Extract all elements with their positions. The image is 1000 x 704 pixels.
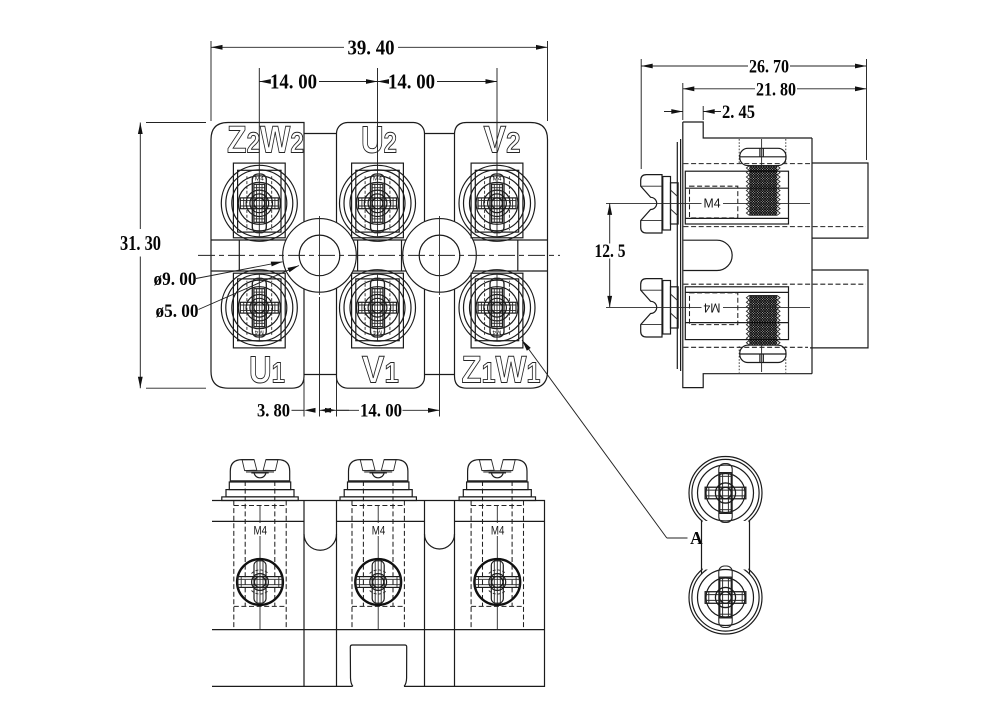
svg-text:26. 70: 26. 70 xyxy=(749,57,789,78)
mounting hole boss 1 xyxy=(283,216,357,295)
screw terminal U2 xyxy=(340,163,416,241)
top view body column 3 xyxy=(455,123,548,389)
upper terminal cage xyxy=(685,171,788,224)
svg-text:M4: M4 xyxy=(704,300,721,315)
mounting hole boss 2 xyxy=(403,216,477,295)
svg-text:ø5. 00: ø5. 00 xyxy=(156,301,199,322)
horizontal centerline xyxy=(198,254,560,256)
upper terminal screw assembly (left) xyxy=(641,175,678,233)
screw terminal V2 xyxy=(459,163,535,241)
svg-text:39. 40: 39. 40 xyxy=(348,36,395,60)
detail A leader xyxy=(520,339,703,548)
upper screw axis xyxy=(606,202,702,204)
lower threaded stud with hatch xyxy=(746,296,780,346)
front slot right xyxy=(425,501,455,687)
svg-text:21. 80: 21. 80 xyxy=(756,79,796,100)
svg-text:3. 80: 3. 80 xyxy=(257,401,290,422)
U slot between terminals xyxy=(684,240,733,270)
svg-text:14. 00: 14. 00 xyxy=(270,70,317,94)
lower clamp screw head (bottom) xyxy=(739,344,786,372)
dimension 2.45 xyxy=(664,102,755,123)
side view front plate lines xyxy=(676,142,678,369)
front screw column 1 xyxy=(222,460,298,630)
detail A rings xyxy=(689,457,762,635)
svg-text:14. 00: 14. 00 xyxy=(388,70,435,94)
svg-text:ø9. 00: ø9. 00 xyxy=(154,269,197,290)
top web lines across gaps xyxy=(304,133,337,135)
middle channel lines xyxy=(211,239,548,241)
dimension 14.00 top-right xyxy=(378,68,498,170)
dimension 14.00 bottom xyxy=(320,297,440,422)
lower terminal screw assembly (left) xyxy=(641,279,678,337)
dimension 26.70 xyxy=(641,57,866,170)
dimension 3.80 bottom xyxy=(257,379,349,422)
top view body column 2 xyxy=(337,123,425,389)
svg-text:14. 00: 14. 00 xyxy=(360,401,402,422)
screw terminal Z2W2 xyxy=(221,163,297,241)
top view body column 1 xyxy=(211,123,304,389)
bottom web lines across gaps xyxy=(304,374,337,376)
base notch xyxy=(350,645,406,686)
front slot left xyxy=(304,501,337,687)
svg-text:2. 45: 2. 45 xyxy=(722,102,755,123)
front view body outline xyxy=(212,501,545,687)
dimension 21.80 xyxy=(683,79,867,120)
dimension 39.40 xyxy=(211,36,548,122)
lower screw axis xyxy=(606,306,702,308)
upper clamp screw head (top) xyxy=(739,139,786,167)
detail A top screw xyxy=(698,464,754,523)
side view body outline xyxy=(683,122,868,388)
svg-text:12. 5: 12. 5 xyxy=(595,241,626,262)
svg-text:M4: M4 xyxy=(704,195,721,210)
front screw column 3 xyxy=(459,460,535,630)
dimension 31.30 xyxy=(120,123,206,389)
leader dia 5.00 xyxy=(156,263,300,322)
lower terminal cage xyxy=(685,287,788,340)
front screw column 2 xyxy=(340,460,416,630)
leader dia 9.00 xyxy=(154,259,283,290)
screw terminal V1 xyxy=(340,270,416,348)
svg-text:31. 30: 31. 30 xyxy=(120,231,161,255)
upper threaded stud with hatch xyxy=(746,166,780,216)
dimension 14.00 top-left xyxy=(259,68,377,170)
dimension 12.5 xyxy=(595,203,626,307)
screw terminal U1 xyxy=(221,270,297,348)
screw terminal Z1W1 xyxy=(459,270,535,348)
detail A link xyxy=(702,521,750,575)
side view hidden cavity lines xyxy=(684,164,867,348)
detail A bottom screw xyxy=(698,566,754,628)
